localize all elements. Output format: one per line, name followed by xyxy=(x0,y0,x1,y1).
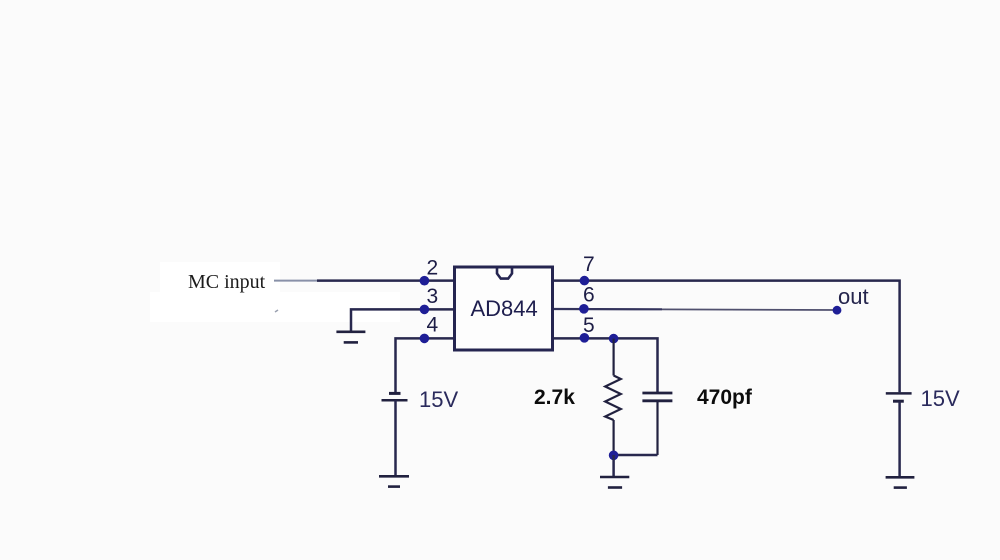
ground below battery B2 xyxy=(886,477,915,487)
svg-text:MC input: MC input xyxy=(188,271,266,293)
ground at pin 3 xyxy=(336,332,365,343)
wire pin 6 to out (thin segment) xyxy=(662,308,837,311)
wire pin 3 to ground xyxy=(351,309,453,331)
ground below battery B1 xyxy=(379,476,409,486)
capacitor 470pf xyxy=(642,393,672,455)
node R top junction dot xyxy=(609,334,619,344)
wire pin 6 to out xyxy=(554,308,662,310)
wire MC input to pin 2 (faded left segment) xyxy=(274,280,320,282)
resistor 2.7k xyxy=(605,339,621,455)
svg-text:15V: 15V xyxy=(921,386,960,411)
svg-text:7: 7 xyxy=(583,253,595,276)
wire MC input to pin 2 xyxy=(317,279,453,282)
node pin 2 junction dot xyxy=(420,276,430,286)
svg-text:470pf: 470pf xyxy=(697,386,753,409)
svg-text:15V: 15V xyxy=(419,387,458,412)
wire pin 4 to battery B1 xyxy=(396,338,454,392)
svg-text:out: out xyxy=(838,284,869,309)
node RC bottom junction dot xyxy=(609,451,619,461)
battery B2 15V xyxy=(886,393,912,401)
node pin 3 junction dot xyxy=(420,305,430,315)
op-amp U1 pin-1 notch xyxy=(497,267,512,279)
ground below RC xyxy=(600,477,629,488)
node out dot xyxy=(833,306,842,315)
svg-text:6: 6 xyxy=(583,284,595,307)
battery B1 15V xyxy=(382,393,408,400)
svg-text:4: 4 xyxy=(427,314,439,337)
wire RC bottom to ground xyxy=(612,455,615,477)
node pin 6 junction dot xyxy=(579,304,589,314)
node pin 5 junction dot xyxy=(580,333,590,343)
stray mark xyxy=(275,310,278,312)
wire pin 7 positive rail to battery B2 xyxy=(554,281,900,393)
wire battery B2 to ground xyxy=(898,401,901,477)
wire pin 5 to RC network xyxy=(554,338,658,392)
node pin 4 junction dot xyxy=(420,334,430,344)
node pin 7 junction dot xyxy=(580,276,590,286)
wire battery B1 to ground xyxy=(394,400,397,476)
svg-text:2.7k: 2.7k xyxy=(534,386,575,409)
svg-text:2: 2 xyxy=(427,257,439,280)
op-amp U1 AD844 body xyxy=(455,267,553,350)
wire bottom RC join xyxy=(614,454,658,457)
svg-text:3: 3 xyxy=(427,285,439,308)
svg-text:AD844: AD844 xyxy=(471,296,538,321)
